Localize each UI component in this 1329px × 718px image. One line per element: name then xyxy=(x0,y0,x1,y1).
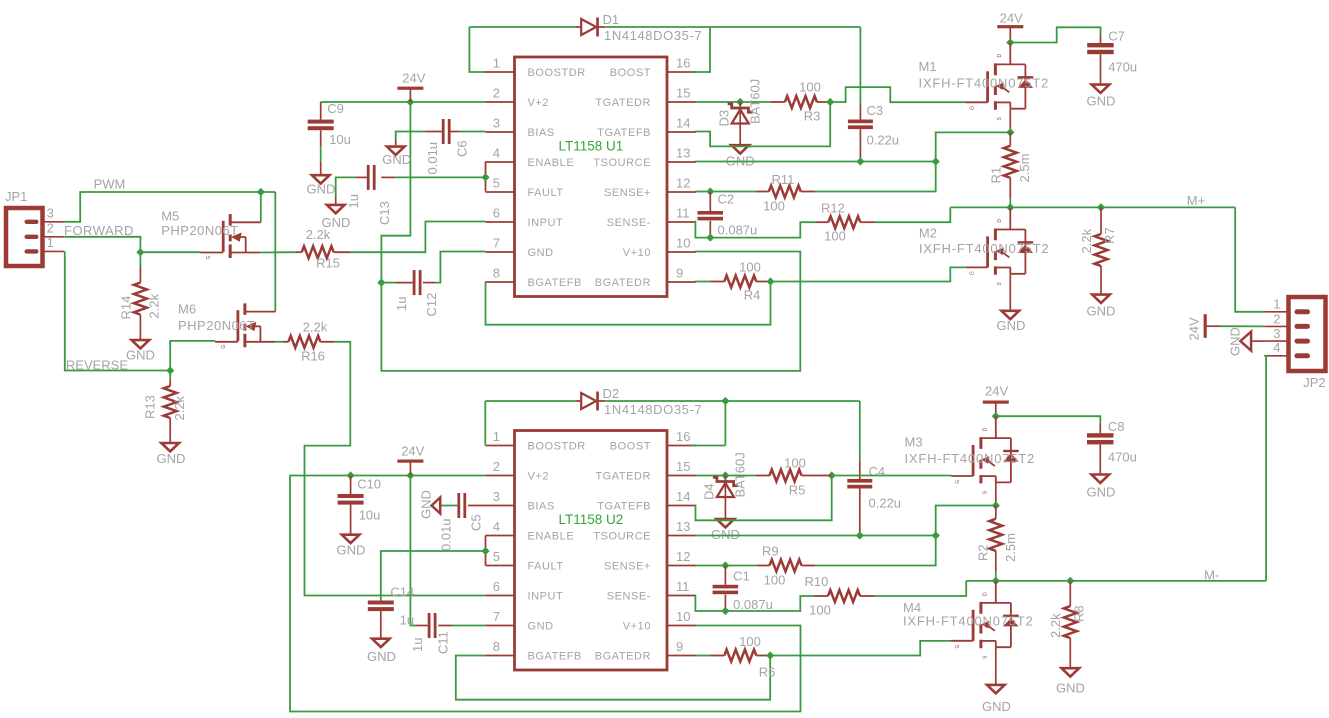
node FORWARD junction xyxy=(136,248,144,256)
svg-text:IXFH-FT400N075T2: IXFH-FT400N075T2 xyxy=(919,241,1050,256)
svg-text:GND: GND xyxy=(307,182,336,197)
node D4 top junction xyxy=(721,471,729,479)
wire M3 source lead xyxy=(995,482,997,505)
resistor R8 2.2k xyxy=(1064,606,1077,638)
svg-text:GND: GND xyxy=(1087,94,1116,109)
wire R12 to M+ line xyxy=(875,207,951,222)
svg-text:C2: C2 xyxy=(718,192,735,207)
svg-text:1u: 1u xyxy=(346,194,361,208)
svg-text:C8: C8 xyxy=(1108,419,1125,434)
svg-text:2.2k: 2.2k xyxy=(146,293,161,318)
power 24V symbol at M3 xyxy=(983,401,1009,404)
wire D2 cathode line xyxy=(605,400,860,402)
ground under R7 xyxy=(1092,295,1110,303)
svg-text:1u: 1u xyxy=(394,297,409,311)
diode D2 xyxy=(576,400,606,402)
wire R10 to M- line xyxy=(874,581,966,596)
node C10 junction xyxy=(347,471,355,479)
svg-text:IXFH-FT400N075T2: IXFH-FT400N075T2 xyxy=(903,614,1034,629)
resistor R1 2.5m xyxy=(1004,146,1017,178)
wire M+ net xyxy=(950,206,1235,208)
svg-text:10u: 10u xyxy=(359,508,381,523)
svg-text:D: D xyxy=(997,219,1003,223)
svg-text:0.087u: 0.087u xyxy=(733,597,773,612)
node R3 output junction xyxy=(826,98,834,106)
transistor M2 IXFH-FT400N075T2 xyxy=(966,208,1033,286)
svg-text:INPUT: INPUT xyxy=(528,591,564,603)
svg-text:IXFH-FT400N075T2: IXFH-FT400N075T2 xyxy=(905,451,1036,466)
capacitor C14 1u xyxy=(368,601,394,605)
svg-text:BOOSTDR: BOOSTDR xyxy=(528,441,586,453)
resistor R8 top lead xyxy=(1069,581,1071,606)
wire C4 top lead xyxy=(859,462,861,479)
svg-text:G: G xyxy=(970,106,976,110)
svg-text:GND: GND xyxy=(711,527,740,542)
wire ENABLE/FAULT to C14 xyxy=(381,551,486,595)
svg-text:SENSE+: SENSE+ xyxy=(604,187,651,199)
wire C6 left to GND xyxy=(396,132,425,140)
wire D1 anode line from pin1 riser xyxy=(469,26,575,28)
svg-text:2.2k: 2.2k xyxy=(172,395,187,420)
svg-text:C14: C14 xyxy=(390,585,414,600)
op-amp driver U1 LT1158 xyxy=(486,56,697,297)
node C1 bottom junction xyxy=(721,607,729,615)
svg-text:D4: D4 xyxy=(702,483,717,500)
svg-text:1N4148DO35-7: 1N4148DO35-7 xyxy=(604,28,702,43)
svg-text:2: 2 xyxy=(493,86,500,101)
capacitor C6 0.01u xyxy=(442,119,445,144)
node M1 source junction xyxy=(1006,128,1014,136)
svg-text:1: 1 xyxy=(493,429,500,444)
svg-text:12: 12 xyxy=(676,176,690,191)
node ENABLE/FAULT junction U2 xyxy=(481,547,489,555)
wire C3 bottom lead xyxy=(859,129,861,161)
svg-text:100: 100 xyxy=(824,229,846,244)
svg-text:7: 7 xyxy=(493,609,500,624)
svg-text:D: D xyxy=(982,427,988,431)
svg-text:R8: R8 xyxy=(1071,605,1086,622)
svg-text:JP2: JP2 xyxy=(1303,375,1325,390)
resistor R6 100 xyxy=(724,650,756,662)
transistor M3 IXFH-FT400N075T2 xyxy=(951,416,1019,494)
wire pin9 BGATEDR to R4 xyxy=(695,281,710,283)
svg-text:TGATEDR: TGATEDR xyxy=(595,97,651,109)
svg-text:2.5m: 2.5m xyxy=(1017,154,1032,183)
svg-text:R11: R11 xyxy=(772,172,795,187)
svg-text:1u: 1u xyxy=(400,613,414,628)
wire C4 top from D2 line xyxy=(859,401,861,462)
svg-text:BOOSTDR: BOOSTDR xyxy=(528,67,586,79)
svg-text:GND: GND xyxy=(367,649,396,664)
svg-text:BOOST: BOOST xyxy=(610,67,651,79)
svg-text:C6: C6 xyxy=(455,140,470,157)
resistor R2 top lead xyxy=(995,506,997,519)
svg-text:ENABLE: ENABLE xyxy=(528,531,575,543)
svg-text:BAT60J: BAT60J xyxy=(733,452,748,497)
svg-text:D: D xyxy=(982,592,988,596)
svg-text:PHP20N06T: PHP20N06T xyxy=(178,318,255,333)
svg-text:11: 11 xyxy=(676,579,690,594)
resistor R13 top lead xyxy=(169,380,171,386)
svg-text:GND: GND xyxy=(1228,327,1243,356)
svg-text:100: 100 xyxy=(763,199,785,214)
wire REVERSE to M6 gate xyxy=(170,341,215,371)
svg-text:3: 3 xyxy=(493,489,500,504)
wire C5 left lead xyxy=(440,505,457,507)
wire R6 to M4 gate xyxy=(770,641,952,656)
node M5 drain junction on PWM xyxy=(257,188,265,196)
svg-text:0.22u: 0.22u xyxy=(869,496,902,511)
node R6 output junction xyxy=(766,651,774,659)
wire C13 left to GND xyxy=(336,177,356,197)
svg-text:GND: GND xyxy=(997,318,1026,333)
svg-text:BIAS: BIAS xyxy=(528,501,555,513)
svg-text:C4: C4 xyxy=(869,464,886,479)
power 24V symbol bottom xyxy=(397,460,423,463)
svg-text:GND: GND xyxy=(982,699,1011,714)
wire M4 source to GND xyxy=(995,647,997,685)
diode D4 BAT60J xyxy=(724,476,726,482)
node ENABLE/FAULT junction xyxy=(481,173,489,181)
ground under C14 xyxy=(372,639,390,647)
capacitor C7 470u xyxy=(1087,43,1114,47)
svg-text:100: 100 xyxy=(809,603,831,618)
node 24V junction bottom xyxy=(406,471,414,479)
wire pin16 BOOST riser xyxy=(724,401,726,446)
ground under C13 xyxy=(327,205,345,213)
wire R3 to M1 gate xyxy=(830,87,966,102)
svg-text:10: 10 xyxy=(676,236,690,251)
wire R4 to M2 gate xyxy=(771,267,966,281)
svg-text:GND: GND xyxy=(157,451,186,466)
wire ENABLE-FAULT bracket U2 xyxy=(485,536,487,566)
svg-text:15: 15 xyxy=(676,459,690,474)
svg-text:LT1158 U1: LT1158 U1 xyxy=(559,139,624,154)
transistor M5 PHP20N06T xyxy=(201,214,261,259)
svg-text:V+10: V+10 xyxy=(623,247,651,259)
svg-text:0.22u: 0.22u xyxy=(867,133,900,148)
ground under M4 xyxy=(987,685,1005,693)
svg-text:470u: 470u xyxy=(1108,60,1137,75)
wire pin16 stub link xyxy=(691,445,725,447)
svg-text:GND: GND xyxy=(337,543,366,558)
svg-text:ENABLE: ENABLE xyxy=(528,157,575,169)
ground under C6 xyxy=(387,147,405,155)
resistor R2 2.5m xyxy=(989,519,1002,551)
svg-text:1: 1 xyxy=(1273,297,1280,312)
wire M- net xyxy=(966,580,1266,582)
svg-text:R4: R4 xyxy=(744,288,761,303)
svg-text:R5: R5 xyxy=(789,483,806,498)
transistor M6 PHP20N06T xyxy=(215,303,275,348)
wire 24V to C8 xyxy=(996,416,1101,424)
svg-text:3: 3 xyxy=(493,116,500,131)
svg-text:R16: R16 xyxy=(301,349,325,364)
svg-text:G: G xyxy=(955,480,961,484)
svg-text:16: 16 xyxy=(676,56,690,71)
svg-text:6: 6 xyxy=(493,206,500,221)
wire ENABLE-FAULT bracket xyxy=(485,162,487,192)
svg-text:SENSE+: SENSE+ xyxy=(604,561,651,573)
node R7 top junction on M+ xyxy=(1097,203,1105,211)
node pin16 junction on D2 line xyxy=(721,397,729,405)
svg-text:M1: M1 xyxy=(919,59,937,74)
svg-text:R2: R2 xyxy=(976,544,991,561)
wire pin13 TSOURCE line xyxy=(695,535,936,537)
wire FORWARD net xyxy=(64,237,140,252)
svg-text:14: 14 xyxy=(676,116,690,131)
svg-text:100: 100 xyxy=(739,634,761,649)
wire pin15 TGATEDR to R5 xyxy=(695,475,756,477)
svg-text:C11: C11 xyxy=(435,631,450,654)
svg-text:R3: R3 xyxy=(804,109,821,124)
svg-text:2: 2 xyxy=(47,221,54,236)
power 24V symbol at M1 xyxy=(997,25,1023,28)
connector JP1 xyxy=(6,208,43,266)
ground under D3 xyxy=(731,145,749,153)
svg-text:REVERSE: REVERSE xyxy=(66,358,128,373)
svg-text:4: 4 xyxy=(493,519,500,534)
svg-text:V+2: V+2 xyxy=(528,97,550,109)
svg-text:TSOURCE: TSOURCE xyxy=(593,157,651,169)
resistor R1 top lead xyxy=(1009,132,1011,145)
node REVERSE junction xyxy=(166,366,174,374)
wire M5 source to R15 xyxy=(260,251,296,253)
resistor R5 100 xyxy=(770,470,802,482)
wire C3 top from D1 line xyxy=(859,27,861,103)
svg-text:V+2: V+2 xyxy=(528,471,550,483)
power 24V symbol top xyxy=(397,87,423,90)
svg-text:1u: 1u xyxy=(410,638,425,652)
svg-text:GND: GND xyxy=(1087,304,1116,319)
node 24V junction xyxy=(406,98,414,106)
svg-text:GND: GND xyxy=(419,490,434,519)
svg-text:M+: M+ xyxy=(1187,193,1205,208)
ground under R8 xyxy=(1062,668,1080,676)
svg-text:IXFH-FT400N075T2: IXFH-FT400N075T2 xyxy=(919,76,1050,91)
wire pin8 BGATEFB loop to R4 output xyxy=(486,282,771,325)
svg-text:BOOST: BOOST xyxy=(610,441,651,453)
wire C3 top lead xyxy=(859,103,861,120)
svg-text:V+10: V+10 xyxy=(623,621,651,633)
wire 24V trunk to pin10 V+10 loop xyxy=(381,102,800,371)
svg-text:8: 8 xyxy=(493,639,500,654)
wire C12 left to 24V trunk xyxy=(381,282,395,284)
transistor M4 IXFH-FT400N075T2 xyxy=(951,581,1019,659)
wire pin11 SENSE- route xyxy=(695,222,816,238)
capacitor C3 0.22u xyxy=(848,120,873,124)
svg-text:PHP20N06T: PHP20N06T xyxy=(161,223,238,238)
resistor R15 2.2k xyxy=(302,246,334,258)
ground symbol at JP2 pin3 xyxy=(1240,332,1251,351)
wire M1 source lead xyxy=(1009,109,1011,133)
resistor R12 100 xyxy=(828,216,860,228)
node D3 top junction xyxy=(736,98,744,106)
svg-text:R9: R9 xyxy=(762,544,779,559)
svg-text:C12: C12 xyxy=(424,293,439,317)
node C3 bottom junction xyxy=(856,157,864,165)
svg-text:2.2k: 2.2k xyxy=(303,320,328,335)
svg-text:24V: 24V xyxy=(1187,317,1202,340)
svg-text:GND: GND xyxy=(528,621,554,633)
svg-text:C1: C1 xyxy=(733,569,750,584)
wire C11 to pin7 GND xyxy=(452,625,486,627)
node R4 output junction xyxy=(766,277,774,285)
svg-text:FORWARD: FORWARD xyxy=(64,223,134,238)
node M3 drain 24V junction xyxy=(992,412,1000,420)
capacitor C2 0.087u xyxy=(709,192,711,212)
svg-text:15: 15 xyxy=(676,86,690,101)
node C2 bottom junction xyxy=(706,234,714,242)
wire pin13 TSOURCE line xyxy=(695,161,936,163)
svg-text:M5: M5 xyxy=(161,208,179,223)
svg-text:R6: R6 xyxy=(759,665,776,680)
wire R9 to M3 source sense xyxy=(815,506,996,566)
wire D1 cathode line to C3/pin16 xyxy=(605,26,860,28)
svg-text:M6: M6 xyxy=(178,301,196,316)
svg-text:13: 13 xyxy=(676,519,690,534)
wire pin3 BIAS to C5 xyxy=(468,505,486,507)
node TSOURCE sense junction xyxy=(932,157,940,165)
svg-text:SENSE-: SENSE- xyxy=(607,591,651,603)
svg-text:0.01u: 0.01u xyxy=(425,142,440,175)
svg-text:2.2k: 2.2k xyxy=(1079,228,1094,253)
svg-text:R12: R12 xyxy=(821,201,845,216)
wire 24V to C7 xyxy=(1010,27,1100,42)
svg-text:D3: D3 xyxy=(716,110,731,127)
svg-text:G: G xyxy=(955,645,961,649)
wire pin7 GND to C12 xyxy=(435,252,486,283)
node TSOURCE sense junction bottom xyxy=(932,531,940,539)
wire REVERSE net xyxy=(65,251,170,370)
svg-text:GND: GND xyxy=(1056,681,1085,696)
node M3 source junction xyxy=(992,501,1000,509)
svg-text:D2: D2 xyxy=(603,386,620,401)
svg-text:C9: C9 xyxy=(327,101,344,116)
svg-text:24V: 24V xyxy=(401,444,424,459)
node R5 output junction xyxy=(828,471,836,479)
svg-text:R7: R7 xyxy=(1102,227,1117,244)
svg-text:0.087u: 0.087u xyxy=(718,222,758,237)
svg-text:5: 5 xyxy=(493,549,500,564)
svg-text:TGATEFB: TGATEFB xyxy=(597,501,651,513)
transistor M1 IXFH-FT400N075T2 xyxy=(966,43,1033,121)
resistor R10 100 xyxy=(828,590,860,602)
svg-text:R15: R15 xyxy=(316,256,340,271)
resistor R4 100 xyxy=(724,276,756,288)
resistor R16 2.2k xyxy=(288,336,320,348)
ground left of C5 xyxy=(432,498,441,514)
resistor R14 top lead xyxy=(139,267,141,283)
capacitor C1 0.087u xyxy=(724,566,726,585)
wire PWM net xyxy=(64,192,275,222)
svg-text:7: 7 xyxy=(493,236,500,251)
power 24V symbol at JP2 xyxy=(1204,314,1207,338)
svg-text:1: 1 xyxy=(493,56,500,71)
capacitor C10 10u xyxy=(350,476,352,495)
svg-text:GND: GND xyxy=(126,347,155,362)
wire pin16 BOOST riser xyxy=(691,27,710,72)
svg-text:BGATEDR: BGATEDR xyxy=(595,651,651,663)
svg-text:1N4148DO35-7: 1N4148DO35-7 xyxy=(604,402,702,417)
resistor R14 2.2k xyxy=(134,283,147,315)
ground under C9 xyxy=(312,175,330,183)
svg-text:13: 13 xyxy=(676,146,690,161)
ground under D4 xyxy=(717,519,735,527)
svg-text:FAULT: FAULT xyxy=(528,561,564,573)
svg-text:1: 1 xyxy=(47,235,54,250)
wire M5 drain riser xyxy=(260,192,262,222)
svg-text:2.2k: 2.2k xyxy=(306,227,331,242)
svg-text:GND: GND xyxy=(1087,485,1116,500)
svg-text:C5: C5 xyxy=(469,514,484,531)
svg-text:12: 12 xyxy=(676,549,690,564)
svg-text:9: 9 xyxy=(676,266,683,281)
node R2 bottom junction on M- xyxy=(992,577,1000,585)
wire to R14 xyxy=(139,252,141,266)
svg-text:10u: 10u xyxy=(329,132,351,147)
svg-text:G: G xyxy=(206,255,212,259)
svg-text:10: 10 xyxy=(676,609,690,624)
svg-text:100: 100 xyxy=(799,80,821,95)
node R8 top junction on M- xyxy=(1066,577,1074,585)
svg-text:C7: C7 xyxy=(1108,29,1125,44)
svg-text:G: G xyxy=(970,271,976,275)
svg-text:D1: D1 xyxy=(603,12,620,27)
svg-text:R1: R1 xyxy=(989,167,1004,184)
wire pin9 BGATEDR to R6 xyxy=(695,655,710,657)
ground under R13 xyxy=(161,443,179,451)
capacitor C4 0.22u xyxy=(847,479,872,483)
wire pin3 BIAS to C6 xyxy=(460,131,486,133)
wire D2 anode line xyxy=(485,400,575,402)
ground under M2 xyxy=(1002,311,1020,319)
resistor R9 100 xyxy=(770,560,802,572)
svg-text:LT1158 U2: LT1158 U2 xyxy=(559,512,624,527)
svg-text:2: 2 xyxy=(493,459,500,474)
capacitor C12 1u xyxy=(413,270,416,295)
node C12 junction on 24V trunk xyxy=(377,279,385,287)
capacitor C13 1u xyxy=(367,165,370,190)
resistor R7 2.2k xyxy=(1095,234,1108,266)
node M1 drain 24V junction xyxy=(1006,38,1014,46)
svg-text:C13: C13 xyxy=(377,201,392,225)
svg-text:0.01u: 0.01u xyxy=(439,518,454,551)
wire pin12 SENSE+ to C2 xyxy=(695,191,710,193)
svg-text:R10: R10 xyxy=(805,574,829,589)
svg-text:M2: M2 xyxy=(919,225,937,240)
svg-text:C10: C10 xyxy=(357,477,381,492)
wire R16 to U2 pin6 INPUT xyxy=(305,342,486,596)
svg-text:16: 16 xyxy=(676,429,690,444)
svg-text:2.5m: 2.5m xyxy=(1003,533,1018,562)
svg-text:6: 6 xyxy=(493,579,500,594)
op-amp driver U2 LT1158 xyxy=(486,429,697,670)
svg-text:24V: 24V xyxy=(402,71,425,86)
connector JP2 xyxy=(1289,297,1326,371)
resistor R3 100 xyxy=(785,96,817,108)
capacitor C9 10u xyxy=(320,102,322,120)
svg-text:3: 3 xyxy=(47,206,54,221)
svg-text:TSOURCE: TSOURCE xyxy=(593,531,651,543)
wire ENABLE/FAULT to C13 xyxy=(395,176,485,178)
svg-text:2: 2 xyxy=(1273,311,1280,326)
wire 24V to JP2 pin2 xyxy=(1220,325,1264,327)
wire pin15 TGATEDR to R3 xyxy=(695,101,771,103)
wire FORWARD to M5 gate xyxy=(140,251,200,253)
svg-text:8: 8 xyxy=(493,266,500,281)
svg-text:GND: GND xyxy=(528,247,554,259)
